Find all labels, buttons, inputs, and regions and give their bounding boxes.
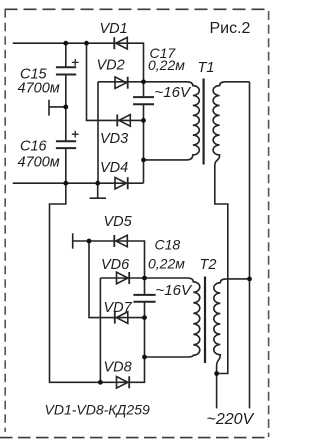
wire VD5 row — [73, 241, 145, 278]
svg-text:VD6: VD6 — [101, 257, 130, 273]
svg-text:VD7: VD7 — [104, 300, 133, 316]
svg-text:~16V: ~16V — [156, 282, 193, 299]
capacitor C17 — [133, 97, 154, 104]
diode VD3 — [117, 114, 130, 126]
diode VD1 — [114, 37, 127, 49]
svg-text:4700м: 4700м — [18, 155, 60, 171]
node stub below VD4 — [90, 183, 106, 198]
capacitor C16 plus — [72, 131, 79, 138]
svg-text:C16: C16 — [20, 139, 48, 155]
capacitor C18 — [133, 295, 155, 302]
svg-text:VD4: VD4 — [100, 160, 128, 176]
wire VD6 row — [100, 277, 144, 279]
svg-text:T2: T2 — [200, 257, 217, 273]
dashed frame left — [4, 9, 6, 432]
svg-text:T1: T1 — [198, 60, 215, 76]
wire C17 column lower — [143, 104, 145, 183]
transformer T2 secondary winding — [214, 279, 250, 374]
transformer T2 core — [204, 277, 206, 364]
wire VD5 to VD7 vertical — [89, 241, 145, 318]
svg-text:VD2: VD2 — [97, 58, 125, 74]
wire jog from C16 bottom down left side to VD8 row — [50, 183, 145, 382]
node stub left of C15 mid — [49, 100, 66, 116]
transformer T1 primary winding — [144, 82, 200, 160]
capacitor C16 — [56, 141, 76, 148]
svg-text:0,22м: 0,22м — [148, 57, 185, 73]
capacitor C15 plus — [72, 59, 79, 66]
wire top rail — [13, 43, 144, 82]
svg-text:4700м: 4700м — [18, 81, 60, 97]
dashed frame right — [268, 11, 270, 437]
junction dots — [63, 41, 68, 46]
wire VD2 row — [98, 81, 144, 83]
diode VD5 — [114, 235, 127, 247]
transformer T2 primary winding — [145, 278, 200, 357]
wire C17 column upper — [143, 82, 145, 97]
svg-text:VD1: VD1 — [100, 21, 128, 37]
dashed frame bottom — [0, 437, 269, 439]
capacitor C15 — [56, 67, 76, 74]
diode VD2 — [115, 77, 128, 89]
svg-text:0,22м: 0,22м — [148, 256, 185, 272]
diode VD6 — [117, 272, 130, 284]
wire C15 C16 column — [65, 43, 67, 183]
wire lower rail — [13, 182, 144, 184]
transformer T1 core — [203, 79, 205, 165]
svg-text:VD1-VD8-КД259: VD1-VD8-КД259 — [45, 402, 150, 418]
wire mains left lead — [216, 374, 218, 409]
svg-text:VD3: VD3 — [100, 131, 128, 147]
svg-text:Рис.2: Рис.2 — [210, 20, 251, 37]
diode VD8 — [117, 376, 130, 388]
diode VD7 — [115, 312, 128, 324]
dashed frame top — [5, 8, 268, 10]
svg-text:~16V: ~16V — [155, 84, 192, 101]
wire VD3 branch from top rail — [87, 43, 144, 120]
svg-text:~220V: ~220V — [207, 411, 255, 428]
wire C18 column upper — [144, 278, 146, 295]
wire T1 secondary top down right side — [249, 82, 251, 409]
wire C18 column lower — [144, 302, 146, 357]
transformer T1 secondary winding — [213, 82, 249, 374]
svg-text:VD5: VD5 — [104, 214, 133, 230]
wire VD2 branch vertical — [97, 82, 99, 183]
wire VD6 vertical to VD8 — [99, 278, 101, 382]
diode VD4 — [115, 177, 128, 189]
node stub VD5 input — [72, 233, 74, 248]
svg-text:VD8: VD8 — [104, 360, 132, 376]
svg-text:C18: C18 — [155, 237, 181, 253]
